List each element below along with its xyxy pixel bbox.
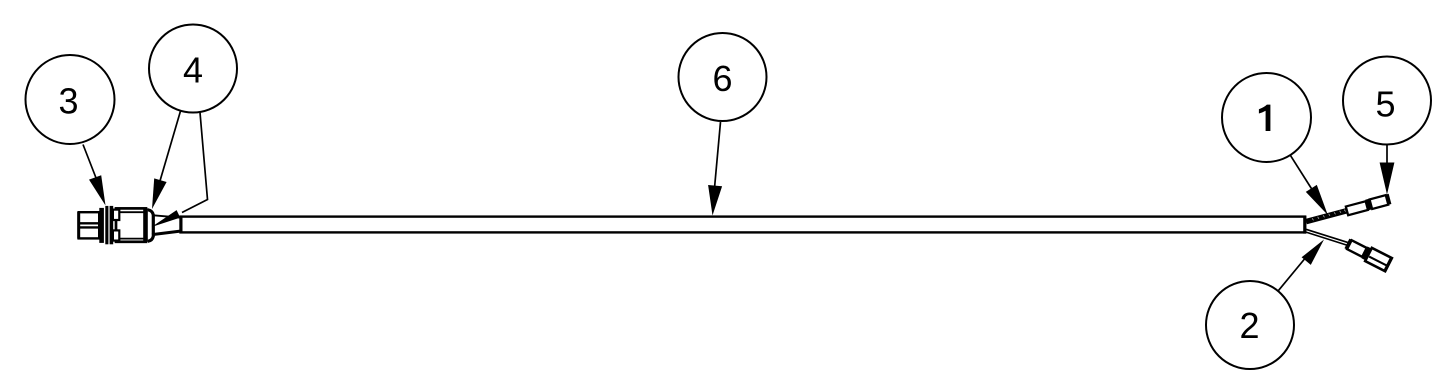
connector boot (148, 210, 154, 242)
leader 1 (1290, 155, 1328, 215)
connector latch tab bottom (113, 230, 119, 240)
balloon 5 (1343, 57, 1431, 145)
connector pins (left plug) (78, 212, 99, 239)
balloon 1 (1222, 73, 1311, 162)
cable left end cap (180, 216, 183, 234)
plain wire lower right 2 (1306, 229, 1349, 245)
leader 4a (152, 111, 181, 209)
connector flange ring (99, 208, 104, 243)
svg-text:3: 3 (58, 81, 78, 122)
svg-text:2: 2 (1239, 305, 1259, 346)
leader 6 (708, 122, 722, 216)
balloon 3 (26, 55, 115, 144)
svg-text:4: 4 (183, 50, 203, 91)
terminal 2 (lower spade terminal) (1344, 237, 1393, 272)
connector latch tab top (113, 210, 119, 220)
balloon 6 (679, 33, 767, 121)
wire bottom (boot to cable bottom corner) (152, 231, 181, 235)
hatched wire upper right 1 (1306, 210, 1346, 222)
connector ring 3 (110, 206, 114, 244)
balloon 2 (1206, 281, 1294, 369)
cable main body 6 (181, 217, 1306, 233)
leader 3 (83, 145, 106, 206)
wire top (boot to cable top corner) (152, 215, 181, 218)
leader 5 (1380, 145, 1395, 195)
terminal 5 (upper bullet terminal) (1344, 194, 1391, 216)
svg-text:6: 6 (712, 58, 732, 99)
connector ring 2 (105, 206, 108, 244)
connector body (116, 208, 148, 241)
cable right end cap (1303, 216, 1306, 234)
leader 2 (1278, 240, 1324, 292)
leader 4b (152, 113, 208, 228)
balloon 4 (149, 25, 237, 113)
svg-text:5: 5 (1375, 84, 1395, 125)
